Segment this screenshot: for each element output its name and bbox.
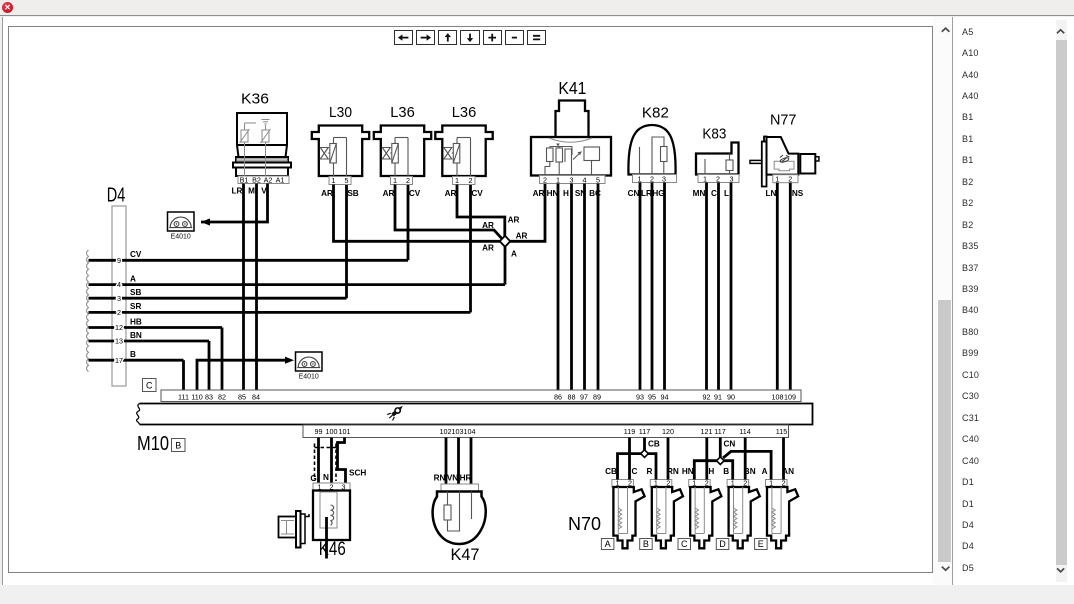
svg-text:12: 12 [115, 323, 123, 332]
svg-text:104: 104 [464, 427, 476, 436]
svg-text:SCH: SCH [349, 469, 366, 478]
svg-text:13: 13 [115, 337, 123, 346]
svg-text:E: E [758, 539, 764, 549]
svg-text:LR: LR [641, 189, 652, 198]
svg-text:BN: BN [130, 331, 142, 340]
svg-text:N: N [323, 473, 329, 482]
svg-text:A: A [762, 467, 768, 476]
svg-text:A2: A2 [264, 175, 273, 184]
svg-text:5: 5 [596, 175, 600, 184]
svg-text:MN: MN [693, 189, 706, 198]
svg-text:CB: CB [648, 440, 660, 449]
svg-text:CV: CV [471, 189, 483, 198]
svg-text:1: 1 [703, 174, 707, 183]
svg-text:D4: D4 [107, 185, 126, 207]
svg-text:A: A [511, 250, 517, 259]
svg-text:99: 99 [315, 427, 323, 436]
svg-text:120: 120 [662, 427, 674, 436]
svg-text:1: 1 [775, 175, 779, 184]
svg-text:E4010: E4010 [299, 374, 319, 381]
svg-text:AR: AR [445, 189, 457, 198]
svg-text:HR: HR [460, 474, 472, 483]
svg-text:M: M [248, 187, 255, 196]
svg-text:N70: N70 [568, 514, 601, 534]
svg-text:NS: NS [792, 189, 804, 198]
svg-text:2: 2 [117, 308, 121, 317]
svg-text:84: 84 [252, 393, 260, 402]
svg-text:K82: K82 [642, 105, 669, 122]
svg-text:17: 17 [115, 356, 123, 365]
svg-text:9: 9 [117, 256, 121, 265]
svg-text:CV: CV [130, 250, 142, 259]
svg-text:4: 4 [583, 175, 587, 184]
svg-text:121: 121 [701, 427, 713, 436]
svg-text:102: 102 [440, 427, 452, 436]
svg-text:K47: K47 [451, 545, 480, 564]
svg-text:LN: LN [766, 189, 777, 198]
svg-text:AR: AR [482, 244, 494, 253]
svg-text:100: 100 [326, 427, 338, 436]
svg-text:83: 83 [205, 393, 213, 402]
svg-text:HG: HG [652, 189, 664, 198]
svg-text:H: H [563, 189, 569, 198]
svg-text:B1: B1 [240, 175, 249, 184]
svg-text:117: 117 [714, 427, 725, 436]
svg-text:D: D [719, 539, 726, 549]
svg-text:AR: AR [321, 189, 333, 198]
svg-text:K83: K83 [702, 125, 726, 142]
svg-text:LR: LR [232, 187, 243, 196]
svg-text:1: 1 [455, 176, 459, 185]
svg-text:C: C [681, 539, 688, 549]
svg-text:110: 110 [191, 393, 202, 402]
svg-text:91: 91 [714, 393, 722, 402]
svg-text:5: 5 [345, 176, 349, 185]
svg-text:95: 95 [648, 393, 656, 402]
svg-text:97: 97 [580, 393, 588, 402]
svg-text:AR: AR [482, 221, 494, 230]
svg-text:92: 92 [703, 393, 711, 402]
svg-text:90: 90 [727, 393, 735, 402]
svg-text:3: 3 [730, 174, 734, 183]
svg-text:AR: AR [533, 189, 545, 198]
svg-text:K41: K41 [558, 78, 586, 98]
svg-text:SR: SR [130, 302, 141, 311]
svg-text:B2: B2 [252, 175, 261, 184]
svg-text:B: B [723, 467, 729, 476]
svg-text:2: 2 [716, 174, 720, 183]
svg-text:A1: A1 [276, 175, 285, 184]
svg-text:108: 108 [772, 393, 784, 402]
svg-text:HN: HN [682, 467, 694, 476]
svg-text:C: C [146, 380, 153, 390]
svg-text:117: 117 [639, 427, 650, 436]
svg-text:K36: K36 [241, 91, 269, 108]
svg-text:RN: RN [434, 474, 446, 483]
svg-text:85: 85 [238, 393, 246, 402]
svg-text:CB: CB [605, 467, 617, 476]
svg-text:CN: CN [628, 189, 640, 198]
svg-text:VN: VN [447, 474, 458, 483]
svg-text:AR: AR [383, 189, 395, 198]
svg-text:G: G [310, 474, 316, 483]
svg-text:2: 2 [469, 176, 473, 185]
svg-text:1: 1 [638, 174, 642, 183]
svg-text:109: 109 [784, 393, 796, 402]
svg-text:C: C [632, 467, 638, 476]
svg-text:89: 89 [593, 393, 601, 402]
svg-text:2: 2 [406, 176, 410, 185]
svg-text:1: 1 [332, 176, 336, 185]
svg-text:L36: L36 [452, 104, 477, 121]
svg-text:82: 82 [218, 393, 226, 402]
svg-text:K46: K46 [319, 539, 346, 560]
svg-text:1: 1 [393, 176, 397, 185]
svg-text:A: A [130, 274, 136, 283]
svg-text:HB: HB [130, 317, 142, 326]
svg-text:3: 3 [117, 294, 121, 303]
svg-text:N77: N77 [770, 112, 797, 129]
svg-text:1: 1 [556, 175, 560, 184]
svg-text:3: 3 [662, 174, 666, 183]
svg-text:AR: AR [508, 216, 520, 225]
svg-text:103: 103 [452, 427, 464, 436]
svg-text:L36: L36 [390, 104, 415, 121]
svg-text:SB: SB [130, 288, 141, 297]
svg-text:L30: L30 [329, 104, 352, 121]
svg-text:C: C [711, 189, 717, 198]
svg-text:93: 93 [636, 393, 644, 402]
svg-text:4: 4 [117, 280, 121, 289]
svg-text:3: 3 [570, 175, 574, 184]
svg-text:B: B [643, 539, 649, 549]
svg-text:AR: AR [516, 232, 528, 241]
svg-text:2: 2 [650, 174, 654, 183]
svg-text:2: 2 [788, 175, 792, 184]
svg-text:B: B [130, 350, 136, 359]
svg-text:CV: CV [409, 189, 421, 198]
svg-text:101: 101 [339, 427, 351, 436]
svg-text:111: 111 [178, 393, 189, 402]
svg-text:SB: SB [347, 189, 358, 198]
svg-text:E4010: E4010 [171, 234, 191, 241]
svg-text:CN: CN [724, 440, 736, 449]
svg-text:115: 115 [776, 427, 787, 436]
svg-text:B: B [175, 440, 181, 450]
svg-text:88: 88 [568, 393, 576, 402]
svg-text:R: R [646, 467, 652, 476]
svg-text:114: 114 [739, 427, 750, 436]
svg-text:119: 119 [624, 427, 635, 436]
svg-text:A: A [605, 539, 611, 549]
svg-text:94: 94 [661, 393, 669, 402]
svg-text:L: L [724, 189, 729, 198]
svg-text:H: H [708, 467, 714, 476]
svg-text:86: 86 [554, 393, 562, 402]
svg-text:2: 2 [543, 175, 547, 184]
svg-text:M10: M10 [137, 433, 169, 455]
